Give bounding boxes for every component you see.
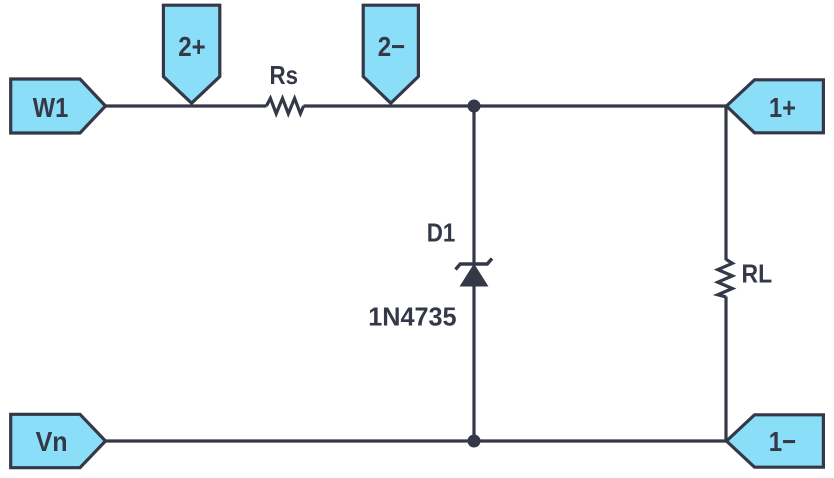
wire RL to 1-	[724, 297, 727, 442]
probe 2+	[163, 5, 219, 103]
connector 1+	[727, 80, 824, 133]
svg-text:1+: 1+	[769, 92, 796, 123]
zener diode D1	[456, 259, 493, 287]
junction node A	[468, 100, 481, 113]
svg-text:2+: 2+	[178, 31, 206, 62]
svg-text:Rs: Rs	[270, 60, 299, 90]
probe 2-	[363, 5, 418, 103]
resistor RL	[718, 259, 733, 297]
wire node A to 1+ (top right)	[474, 104, 727, 107]
wire Rs to node A	[304, 104, 475, 107]
svg-text:W1: W1	[33, 92, 69, 123]
connector W1	[11, 79, 106, 133]
svg-text:1N4735: 1N4735	[368, 302, 456, 332]
svg-text:Vn: Vn	[36, 426, 68, 457]
resistor Rs	[266, 98, 303, 113]
wire W1 to Rs (top left)	[104, 104, 267, 107]
svg-text:D1: D1	[427, 217, 456, 247]
svg-text:2−: 2−	[378, 31, 406, 62]
wire 1+ down to RL	[724, 106, 727, 260]
connector 1-	[727, 415, 824, 467]
svg-text:RL: RL	[742, 259, 773, 289]
wire node A down to D1	[472, 106, 475, 264]
connector Vn	[11, 414, 106, 467]
wire D1 to node B	[472, 285, 475, 441]
wire Vn to 1- (bottom)	[104, 439, 727, 442]
junction node B	[468, 435, 481, 448]
svg-text:1−: 1−	[769, 426, 797, 457]
